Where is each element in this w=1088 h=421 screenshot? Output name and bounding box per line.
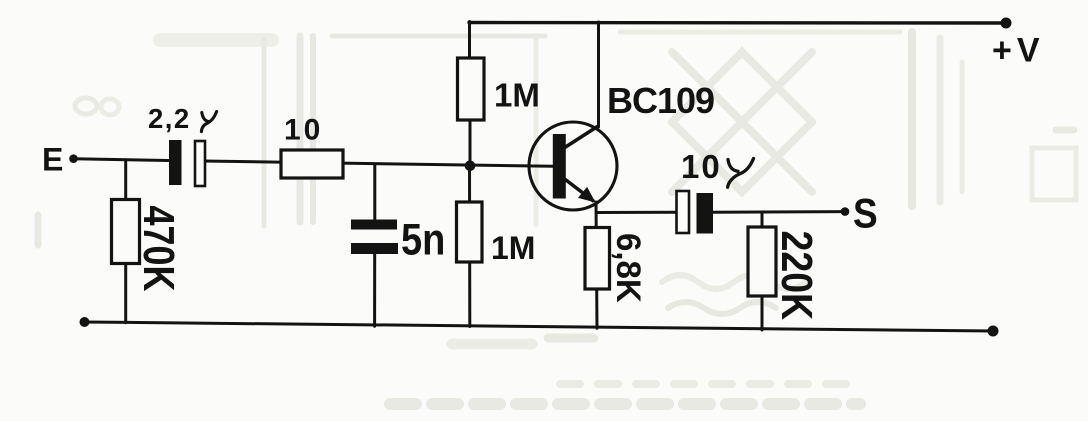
svg-text:220K: 220K <box>772 231 821 321</box>
svg-text:1M: 1M <box>491 230 535 266</box>
wire: emitter drop through 6,8K to ground <box>596 202 597 328</box>
resistor R5 6,8K <box>585 228 648 304</box>
svg-text:E: E <box>42 142 63 178</box>
resistor R2 10 <box>281 114 343 179</box>
capacitor C3 10µ <box>677 148 754 234</box>
svg-text:470K: 470K <box>134 206 182 292</box>
svg-text:+V: +V <box>992 32 1045 70</box>
capacitor C2 5n <box>351 214 445 265</box>
node: ground rail right end <box>988 326 999 337</box>
node: E input terminal <box>42 142 78 178</box>
capacitor C1 2,2µ <box>148 103 217 186</box>
wire: 5n branch lower drop <box>373 251 376 326</box>
wire: ground rail <box>84 322 994 331</box>
svg-text:2,2: 2,2 <box>148 103 191 134</box>
svg-text:6,8K: 6,8K <box>609 233 648 303</box>
svg-text:10: 10 <box>681 148 722 185</box>
node: input/bias junction <box>465 161 476 172</box>
wire: node to 1M lower and down to ground <box>468 166 471 327</box>
wire: 5n branch upper drop <box>373 165 376 223</box>
svg-text:S: S <box>853 191 878 237</box>
resistor R4 1M lower <box>457 202 536 266</box>
node: +V terminal <box>992 18 1045 70</box>
resistor R3 1M upper <box>458 58 540 120</box>
wire: 470K branch drop <box>124 160 127 323</box>
wire: 220K branch drop <box>761 212 764 330</box>
wire: +V top rail <box>469 21 1007 25</box>
node: ground rail left end <box>80 317 90 327</box>
svg-text:BC109: BC109 <box>607 80 714 121</box>
wire: top rail drop to 1M upper <box>468 22 471 61</box>
wire: C1 to node (through R2) <box>203 161 553 166</box>
wire: C3 to S output <box>711 210 845 214</box>
wire: emitter to C3 <box>597 211 678 214</box>
wire: 1M upper lower lead to node <box>469 118 472 167</box>
wire: collector riser <box>597 22 600 127</box>
transistor Q1 BC109 <box>529 80 714 210</box>
svg-text:1M: 1M <box>494 77 540 114</box>
svg-text:10: 10 <box>284 114 323 147</box>
resistor R6 220K <box>748 227 821 320</box>
resistor R1 470K <box>112 200 183 292</box>
node: S output terminal <box>841 191 878 237</box>
svg-text:5n: 5n <box>401 214 445 265</box>
wire: E input to C1 <box>73 159 168 161</box>
